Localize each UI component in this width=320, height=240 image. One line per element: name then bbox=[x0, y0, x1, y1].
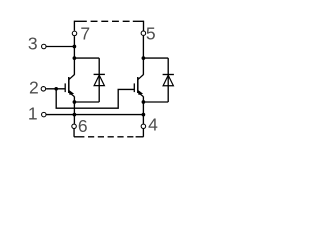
transistor Q2 emitter diagonal bbox=[138, 92, 143, 96]
transistor Q1 emitter arrow bbox=[69, 91, 73, 95]
svg-text:7: 7 bbox=[80, 23, 90, 43]
transistor Q2 (right IGBT) collector diagonal bbox=[138, 75, 144, 80]
terminal circle pin 7 bbox=[72, 31, 77, 36]
transistor Q1 body bar bbox=[68, 77, 70, 93]
module package outline bottom edge (dashed) bbox=[74, 136, 85, 138]
svg-text:4: 4 bbox=[148, 115, 158, 135]
terminal circle pin 3 bbox=[42, 44, 47, 49]
diode D1 triangle bbox=[94, 75, 104, 86]
package side stub at pin 5 bbox=[143, 21, 145, 31]
node: junction right collector/diode branch bbox=[142, 56, 146, 60]
transistor Q2 body bar bbox=[137, 77, 139, 93]
node: junction collector/diode branch bbox=[73, 56, 77, 60]
svg-text:1: 1 bbox=[28, 104, 38, 124]
wire: Q2 emitter vertical bbox=[142, 96, 144, 123]
wire: diode D2 vertical bbox=[167, 58, 169, 102]
svg-text:5: 5 bbox=[146, 24, 156, 44]
terminal circle pin 4 bbox=[141, 124, 146, 129]
wire: D2 anode to right emitter rail bbox=[143, 101, 168, 103]
wire: gate link from pin2 junction to Q2 gate bbox=[56, 89, 134, 108]
wire: branch to diode D1 cathode bbox=[74, 57, 99, 59]
terminal circle pin 1 bbox=[42, 112, 47, 117]
wire: D1 anode to emitter rail bbox=[74, 101, 99, 103]
svg-text:6: 6 bbox=[78, 116, 88, 136]
node: Q2 emitter / D2 anode junction bbox=[142, 100, 146, 104]
transistor Q1 (left IGBT) collector diagonal bbox=[69, 75, 75, 80]
wire: branch to diode D2 cathode bbox=[143, 57, 168, 59]
diode D1 cathode bar bbox=[94, 73, 105, 75]
package side stub at pin 6 bbox=[73, 129, 75, 137]
terminal circle pin 6 bbox=[72, 124, 77, 129]
package side stub at pin 7 bbox=[73, 21, 75, 31]
node: Q1 emitter / pin1 rail junction bbox=[73, 113, 77, 117]
transistor Q2 gate bar bbox=[133, 83, 135, 92]
svg-text:3: 3 bbox=[28, 34, 38, 54]
wire: diode D1 vertical bbox=[98, 58, 100, 102]
wire: left collector vertical bbox=[73, 36, 75, 75]
diode D2 triangle bbox=[163, 75, 173, 86]
terminal circle pin 5 bbox=[141, 31, 146, 36]
terminal circle pin 2 bbox=[41, 87, 46, 92]
transistor Q2 emitter arrow bbox=[138, 91, 142, 95]
wire: terminal 1 emitter rail bbox=[47, 114, 144, 116]
transistor Q1 gate bar bbox=[64, 83, 66, 92]
node: junction pin3/collector bbox=[73, 45, 77, 49]
wire: terminal 3 to left collector rail bbox=[47, 46, 75, 48]
wire: Q1 emitter vertical bbox=[73, 96, 75, 123]
node: Q1 emitter / D1 anode junction bbox=[73, 100, 77, 104]
transistor Q1 emitter diagonal bbox=[69, 92, 74, 96]
svg-text:2: 2 bbox=[29, 78, 39, 98]
wire: right collector vertical bbox=[142, 36, 144, 75]
node: Q2 emitter / pin1 rail junction bbox=[142, 113, 146, 117]
package side stub at pin 4 bbox=[142, 129, 144, 137]
wire: terminal 2 to Q1 gate bbox=[46, 88, 65, 90]
module package outline top edge (dashed) bbox=[74, 20, 86, 22]
node: gate branch junction on pin2 wire bbox=[54, 87, 58, 91]
diode D2 cathode bar bbox=[163, 74, 174, 76]
